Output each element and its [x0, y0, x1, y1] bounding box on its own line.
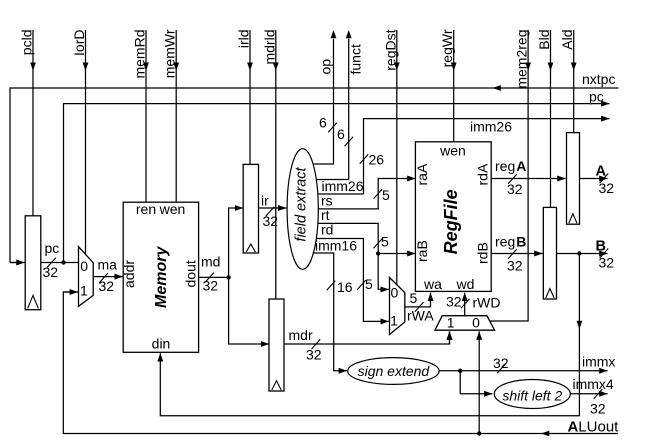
svg-text:pc: pc	[589, 89, 604, 105]
net ALUout	[63, 292, 619, 436]
node rt junction	[376, 251, 380, 255]
register B	[543, 207, 556, 299]
control Bld	[536, 30, 553, 208]
control memRd	[132, 30, 149, 203]
svg-text:6: 6	[319, 115, 327, 131]
svg-text:din: din	[152, 336, 171, 352]
svg-text:pc: pc	[45, 240, 60, 256]
svg-text:raA: raA	[414, 163, 430, 185]
svg-text:0: 0	[391, 285, 399, 301]
svg-text:32: 32	[446, 294, 462, 310]
node pc junction	[61, 260, 65, 264]
wire regB	[491, 234, 542, 274]
shift left 2 unit	[494, 380, 570, 409]
svg-text:6: 6	[337, 126, 345, 142]
svg-text:LUout: LUout	[578, 419, 619, 436]
svg-text:field extract: field extract	[294, 166, 310, 241]
svg-text:rWA: rWA	[407, 308, 434, 324]
wire ALUout to rWD mux	[478, 331, 480, 433]
svg-text:5: 5	[365, 276, 373, 292]
svg-text:32: 32	[263, 213, 279, 229]
net imm26 bus	[360, 119, 610, 195]
svg-text:irld: irld	[236, 30, 252, 49]
svg-text:0: 0	[80, 258, 88, 274]
svg-text:32: 32	[306, 347, 322, 363]
svg-text:wen: wen	[159, 201, 186, 217]
svg-text:16: 16	[337, 279, 353, 295]
control regWr	[439, 29, 456, 142]
svg-text:5: 5	[410, 290, 418, 306]
wire rt	[318, 207, 389, 289]
wire rWD out	[446, 293, 501, 316]
wire B to din	[160, 254, 582, 416]
wire md	[199, 254, 229, 294]
svg-text:addr: addr	[121, 260, 137, 288]
svg-text:md: md	[201, 254, 220, 270]
node ALUout junction	[477, 431, 481, 435]
svg-text:regWr: regWr	[439, 29, 455, 67]
svg-text:26: 26	[369, 152, 385, 168]
control pcld	[19, 30, 36, 216]
wire pc input arrow	[10, 262, 25, 264]
svg-text:mdr: mdr	[289, 327, 313, 343]
svg-text:imm26: imm26	[470, 119, 512, 135]
node B junction	[577, 251, 581, 255]
svg-text:A: A	[516, 158, 526, 174]
svg-text:wa: wa	[423, 276, 442, 292]
svg-text:32: 32	[599, 255, 615, 271]
control mem2reg	[490, 30, 531, 322]
memory block	[121, 201, 199, 352]
register MDR	[269, 299, 284, 391]
svg-text:32: 32	[43, 264, 59, 280]
svg-text:0: 0	[472, 315, 480, 331]
wire imm16	[314, 238, 358, 371]
wire rd	[317, 222, 389, 322]
svg-text:ren: ren	[136, 201, 156, 217]
svg-text:immx4: immx4	[573, 376, 614, 392]
svg-text:immx: immx	[582, 353, 615, 369]
control regDst	[382, 29, 399, 284]
wire immx4	[570, 376, 614, 417]
svg-text:reg: reg	[495, 158, 515, 174]
wire pc out	[41, 240, 79, 280]
wire ir	[259, 193, 287, 230]
svg-text:B: B	[516, 234, 526, 250]
svg-text:pcld: pcld	[19, 30, 35, 56]
signal funct (6)	[316, 30, 363, 180]
svg-text:32: 32	[507, 181, 523, 197]
wire immx	[439, 353, 615, 373]
svg-text:Memory: Memory	[153, 246, 170, 308]
svg-text:32: 32	[493, 355, 509, 371]
svg-text:rWD: rWD	[473, 295, 501, 311]
svg-text:IorD: IorD	[71, 30, 87, 56]
mux rWA	[390, 278, 405, 335]
control mdrld	[261, 30, 278, 300]
wire A out	[580, 164, 615, 197]
wire md to IR	[229, 208, 244, 277]
svg-text:ir: ir	[261, 193, 269, 209]
svg-text:rd: rd	[321, 222, 333, 238]
svg-text:Bld: Bld	[536, 30, 552, 50]
svg-text:1: 1	[80, 283, 88, 299]
svg-text:A: A	[568, 419, 579, 436]
svg-text:wd: wd	[456, 276, 475, 292]
control Ald	[559, 30, 576, 134]
wire imm26 out	[318, 178, 364, 194]
svg-text:wen: wen	[439, 142, 466, 158]
svg-text:memWr: memWr	[162, 29, 178, 78]
svg-text:Ald: Ald	[559, 30, 575, 50]
wire md to MDR	[229, 277, 270, 344]
svg-text:RegFile: RegFile	[441, 189, 461, 254]
svg-text:regDst: regDst	[382, 29, 398, 70]
control irld	[236, 30, 253, 165]
svg-text:ma: ma	[98, 257, 118, 273]
node md junction	[226, 275, 230, 279]
svg-text:mem2reg: mem2reg	[514, 30, 530, 89]
svg-text:rdA: rdA	[475, 163, 491, 185]
control memWr	[162, 29, 179, 202]
sign extend unit	[348, 358, 439, 385]
svg-text:shift left 2: shift left 2	[502, 387, 562, 403]
wire B out	[557, 239, 615, 271]
wire mdr out	[284, 327, 449, 363]
wire ALUout to IorD mux	[63, 291, 78, 293]
svg-text:funct: funct	[348, 44, 364, 74]
svg-text:5: 5	[381, 234, 389, 250]
svg-text:nxtpc: nxtpc	[582, 71, 615, 87]
svg-text:sign extend: sign extend	[358, 363, 431, 379]
svg-text:reg: reg	[495, 234, 515, 250]
wire mdr to rWD mux	[449, 331, 451, 344]
register PC	[25, 216, 41, 310]
net pc bus	[64, 89, 610, 263]
svg-text:32: 32	[507, 258, 523, 274]
svg-text:32: 32	[590, 401, 606, 417]
wire rs	[318, 179, 415, 209]
node immx junction	[458, 369, 462, 373]
mux rWD	[435, 315, 495, 331]
signal op (6)	[313, 30, 337, 164]
svg-text:raB: raB	[414, 240, 430, 262]
wire regA	[491, 158, 565, 197]
svg-text:imm16: imm16	[315, 238, 357, 254]
svg-text:dout: dout	[183, 260, 199, 287]
control IorD	[71, 30, 88, 255]
wire rWA out	[405, 290, 435, 324]
svg-text:32: 32	[99, 278, 115, 294]
wire immx to shift	[460, 371, 492, 394]
register A	[567, 133, 580, 225]
svg-text:32: 32	[203, 278, 219, 294]
net nxtpc	[10, 71, 619, 263]
wire rt to raB	[378, 253, 415, 255]
svg-text:1: 1	[447, 315, 455, 331]
svg-text:mdrld: mdrld	[261, 30, 277, 65]
wire ma	[93, 257, 123, 295]
svg-text:rdB: rdB	[475, 242, 491, 264]
mux IorD	[79, 247, 94, 307]
field extract unit	[287, 149, 318, 270]
svg-text:op: op	[318, 59, 334, 75]
register file block	[414, 142, 491, 292]
register IR	[243, 164, 258, 253]
svg-text:1: 1	[390, 313, 398, 329]
svg-text:32: 32	[599, 180, 615, 196]
svg-text:memRd: memRd	[132, 30, 148, 79]
svg-text:5: 5	[382, 187, 390, 203]
